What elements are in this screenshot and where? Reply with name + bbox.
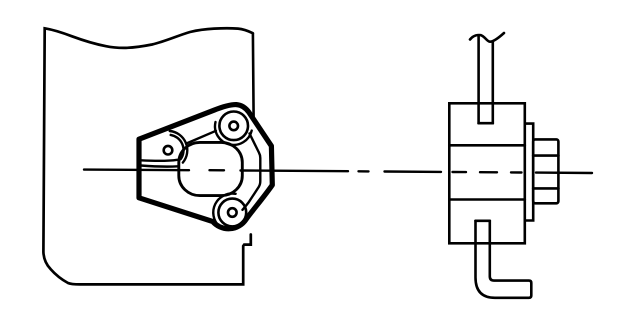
centerline short dash [359, 170, 369, 172]
top boss ring [219, 112, 248, 141]
washer flange [525, 124, 533, 221]
bolt head facet lower [533, 187, 558, 190]
body panel outline [43, 28, 252, 284]
break squiggle [470, 33, 504, 42]
web inner line right side [243, 134, 261, 210]
centerline dash a [453, 171, 467, 174]
left boss inner arc [171, 135, 184, 159]
panel right edge upper [252, 34, 255, 117]
centerline segment 1 [84, 168, 189, 171]
left boss bottom line 1 [141, 160, 177, 161]
hook strap left line [476, 221, 532, 298]
block horizontal line lower [449, 198, 525, 201]
central opening [179, 142, 243, 195]
centerline dash c [511, 171, 522, 174]
web tangent line left-to-top [186, 131, 216, 144]
centerline center mark [210, 169, 225, 172]
left boss outer arc [170, 131, 188, 163]
bracket block body [449, 103, 525, 243]
top boss hole [229, 122, 238, 131]
top slot bottom [479, 122, 493, 125]
rod left line [477, 37, 480, 124]
bolt head [533, 139, 558, 203]
bottom boss outer arc [213, 194, 235, 227]
hook slot top bar [476, 220, 490, 223]
bottom boss hole [228, 208, 237, 217]
rod right line [491, 41, 494, 123]
left boss hole [164, 146, 173, 155]
centerline dash b [480, 171, 497, 174]
bottom boss ring [218, 199, 246, 227]
centerline segment 2 [241, 169, 349, 172]
block horizontal line upper [449, 144, 525, 147]
left boss bottom line 2 [141, 166, 178, 167]
centerline segment 3 [385, 170, 442, 173]
top boss outer arc [215, 122, 252, 145]
bolt head facet upper [533, 154, 558, 157]
centerline segment 4 [536, 171, 592, 174]
mount bracket thick outline [139, 105, 272, 229]
